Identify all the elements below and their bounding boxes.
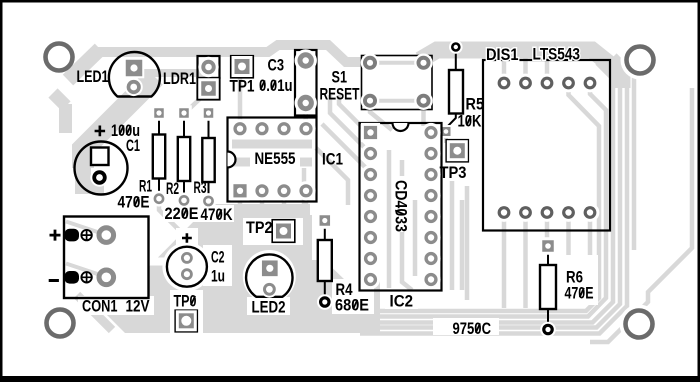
svg-text:9750C: 9750C [453, 320, 492, 338]
wire: LED1 pad to LDR1 [138, 69, 205, 77]
svg-text:R2: R2 [166, 180, 179, 198]
svg-text:DIS1: DIS1 [486, 46, 519, 64]
svg-text:S1: S1 [332, 69, 348, 87]
svg-text:470K: 470K [201, 206, 233, 224]
mounting hole bottom-left [47, 310, 74, 337]
wire: bottom bus band 5 [360, 57, 627, 334]
LED D1 LED1 [77, 52, 160, 97]
svg-text:12V: 12V [126, 298, 150, 316]
svg-text:10K: 10K [458, 113, 482, 131]
wire: S1 internal contact top [374, 61, 420, 65]
wire: left hook diagonal [53, 93, 66, 106]
slashed zero marks [120, 80, 584, 332]
resistor R5 10K [440, 40, 485, 138]
wire: DIS1 pad to R6 stub [545, 212, 550, 240]
wire: bus inside IC1 upper [232, 140, 312, 149]
wire: bus inside IC1 lower [232, 158, 312, 167]
wire: S1 internal contact bottom [374, 99, 420, 103]
test point TP1 [230, 56, 255, 96]
svg-text:LTS543: LTS543 [533, 46, 581, 64]
resistor R4 680E [317, 212, 369, 314]
wire: CON1 internal diagonals [66, 222, 99, 233]
svg-text:IC1: IC1 [322, 151, 343, 169]
test point TP0 [174, 293, 198, 332]
svg-text:NE555: NE555 [255, 150, 296, 168]
resistor R3 470K [194, 105, 233, 224]
wire: IC1 bottom pad stubs into plane [240, 196, 258, 258]
wire: DIS1 bottom pad drops [502, 218, 507, 308]
capacitor C3 0.01u [259, 49, 317, 115]
svg-text:TP1: TP1 [230, 78, 255, 96]
wire: diagonals IC1 to IC2 [339, 95, 370, 135]
mounting hole top-left [46, 44, 73, 71]
svg-text:RESET: RESET [320, 86, 360, 104]
wire: R5 pad to TP3 stub [444, 135, 448, 143]
wire: DIS1 bottom pads down to bands [566, 218, 571, 300]
wire: bottom bus band 3 [360, 63, 613, 323]
svg-text:470E: 470E [565, 285, 594, 303]
wire: bus behind S1 to DIS1 label band [420, 50, 622, 88]
clearance boxes [163, 205, 234, 222]
svg-text:C2: C2 [211, 249, 225, 267]
svg-text:TP2: TP2 [246, 219, 273, 237]
wire: right edge long trace [590, 88, 692, 342]
switch S1 RESET [320, 54, 433, 110]
LDR R LDR1 [163, 56, 220, 100]
connector CON1 12V [49, 217, 150, 316]
clearance around bottom-right mounting hole [620, 305, 659, 344]
wire: LDR1 bottom pad to R2 top pad [186, 92, 207, 112]
svg-text:R3: R3 [194, 179, 207, 197]
wire: DIS1 top pad stubs [502, 56, 507, 80]
wire: plane diagonal strip lower-left [77, 295, 112, 330]
svg-text:CD4033: CD4033 [392, 180, 410, 232]
wire: S1 right pad down stub [421, 106, 426, 126]
wire: TP2 to R4 pad [297, 221, 322, 233]
wire: C3 pad to IC1 pin stub [303, 100, 308, 126]
test point TP3 [440, 140, 469, 182]
svg-text:LED2: LED2 [252, 299, 286, 317]
wire: TP1 to IC1 pin stub [238, 70, 243, 125]
wire: wide diagonal band LED1 to C1 [83, 77, 155, 168]
electrolytic capacitor C2 1u [167, 233, 225, 287]
wire: top horizontal bus [96, 45, 364, 62]
mounting hole top-right [627, 47, 654, 74]
svg-text:R5: R5 [466, 96, 485, 114]
op-amp/timer U1 NE555 IC1 [228, 118, 344, 202]
wire: top bus left diagonal end [68, 49, 100, 80]
svg-text:680E: 680E [335, 297, 369, 315]
mounting hole bottom-right [626, 311, 653, 338]
resistor R1 470E [118, 105, 167, 211]
wire: S1 left pad down to IC2 notch [370, 106, 392, 130]
wire: DIS1 nested trace B / bottom bus band 2 [352, 86, 606, 317]
counter IC2 CD4033 [360, 123, 442, 311]
electrolytic capacitor C1 100u [75, 122, 141, 195]
LED D2 LED2 [246, 254, 292, 316]
wire: verticals right of IC2 [450, 181, 455, 290]
display DIS1 LTS543 [483, 46, 610, 231]
test point TP2 [246, 219, 295, 242]
wire: right bundle outer [615, 55, 634, 250]
svg-text:LDR1: LDR1 [163, 70, 196, 88]
wire: DIS1 nested trace A / bottom bus band 1 [356, 86, 599, 311]
svg-text:470E: 470E [118, 194, 150, 212]
svg-text:C3: C3 [268, 57, 285, 75]
wire: R1 R2 R3 ring drops into plane [159, 203, 180, 231]
wire: ground plane middle bottom [98, 204, 380, 333]
svg-text:0.01u: 0.01u [259, 77, 293, 95]
svg-text:LED1: LED1 [77, 68, 109, 86]
resistor R6 470E [539, 237, 593, 337]
svg-text:TP3: TP3 [440, 164, 467, 182]
wire: bottom bus band 4 [354, 60, 620, 328]
svg-text:IC2: IC2 [390, 293, 414, 311]
svg-text:CON1: CON1 [82, 298, 118, 316]
resistor R2 220E [165, 105, 199, 223]
svg-text:1u: 1u [211, 268, 225, 286]
svg-text:C1: C1 [126, 137, 140, 155]
svg-text:220E: 220E [165, 205, 199, 223]
wire: verticals inside IC2 [387, 150, 392, 288]
